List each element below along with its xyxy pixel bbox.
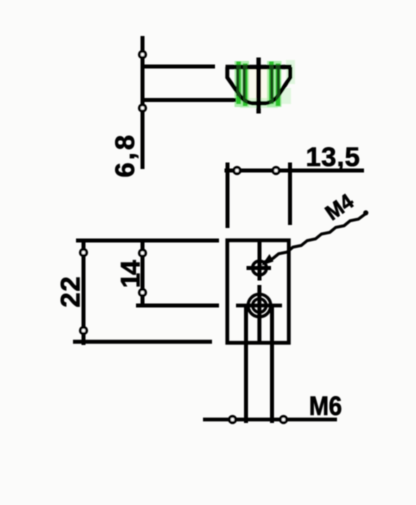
- dim 22 ring marker top: [80, 249, 86, 255]
- M4 leader end dot: [363, 210, 368, 215]
- svg-text:6,8: 6,8: [110, 132, 140, 177]
- green highlight overlay tint: [239, 62, 278, 107]
- hole M6 vertical centerline: [257, 285, 261, 343]
- hole M4 circle: [253, 261, 267, 275]
- dim 6,8 lower extension line: [143, 98, 237, 102]
- dim 13,5 ring marker left: [234, 167, 240, 173]
- dim 13,5 left extension line: [226, 163, 230, 229]
- svg-text:14: 14: [116, 260, 146, 288]
- dimension 14 vertical line: [141, 241, 145, 306]
- side view outline (cup profile): [226, 65, 292, 70]
- green highlight underlay (side view tapped holes): [235, 60, 296, 108]
- svg-text:M6: M6: [309, 392, 342, 422]
- svg-text:13,5: 13,5: [306, 142, 361, 172]
- M6 right tangent extension line: [270, 307, 274, 423]
- dimension 22 vertical line: [82, 241, 86, 345]
- dim 6,8 upper extension line: [143, 65, 216, 69]
- dimension M6 bottom line: [203, 418, 337, 422]
- hole M6 outer circle: [248, 294, 271, 317]
- dim 22 ring marker bottom: [80, 327, 86, 333]
- side view thread line right outer: [277, 69, 280, 96]
- dim 22 bottom extension line: [73, 340, 212, 344]
- dimension 13,5 line: [225, 169, 365, 173]
- dim M6 ring marker right: [280, 416, 286, 422]
- dim 6,8 ring marker bottom: [139, 105, 145, 111]
- dim 14 ring marker bottom: [139, 289, 145, 295]
- M6 left tangent extension line: [244, 307, 248, 423]
- hole M4 vertical centerline: [258, 242, 262, 281]
- dim 13,5 ring marker right: [273, 167, 279, 173]
- hole M4 horizontal centerline: [247, 266, 272, 270]
- dim 14 extension line: [136, 304, 219, 308]
- side view vertical centerline: [256, 58, 260, 114]
- dim M6 ring marker left: [229, 416, 235, 422]
- M4 leader arrowhead: [262, 254, 274, 266]
- side view thread line right inner: [270, 69, 273, 99]
- hole M6 inner circle: [253, 299, 267, 313]
- dim 13,5 right extension line: [288, 163, 292, 226]
- side view thread line left inner: [243, 69, 246, 99]
- svg-text:22: 22: [56, 275, 86, 307]
- dim 6,8 ring marker top: [139, 51, 145, 57]
- dim 22 top extension line: [76, 239, 219, 243]
- side view thread line left outer: [236, 69, 239, 96]
- hole M6 horizontal centerline: [236, 304, 282, 308]
- front view rectangle: [227, 240, 288, 342]
- dimension 6,8 vertical line: [141, 36, 145, 169]
- M4 leader line: [265, 214, 366, 262]
- dim 14 ring marker top: [139, 250, 145, 256]
